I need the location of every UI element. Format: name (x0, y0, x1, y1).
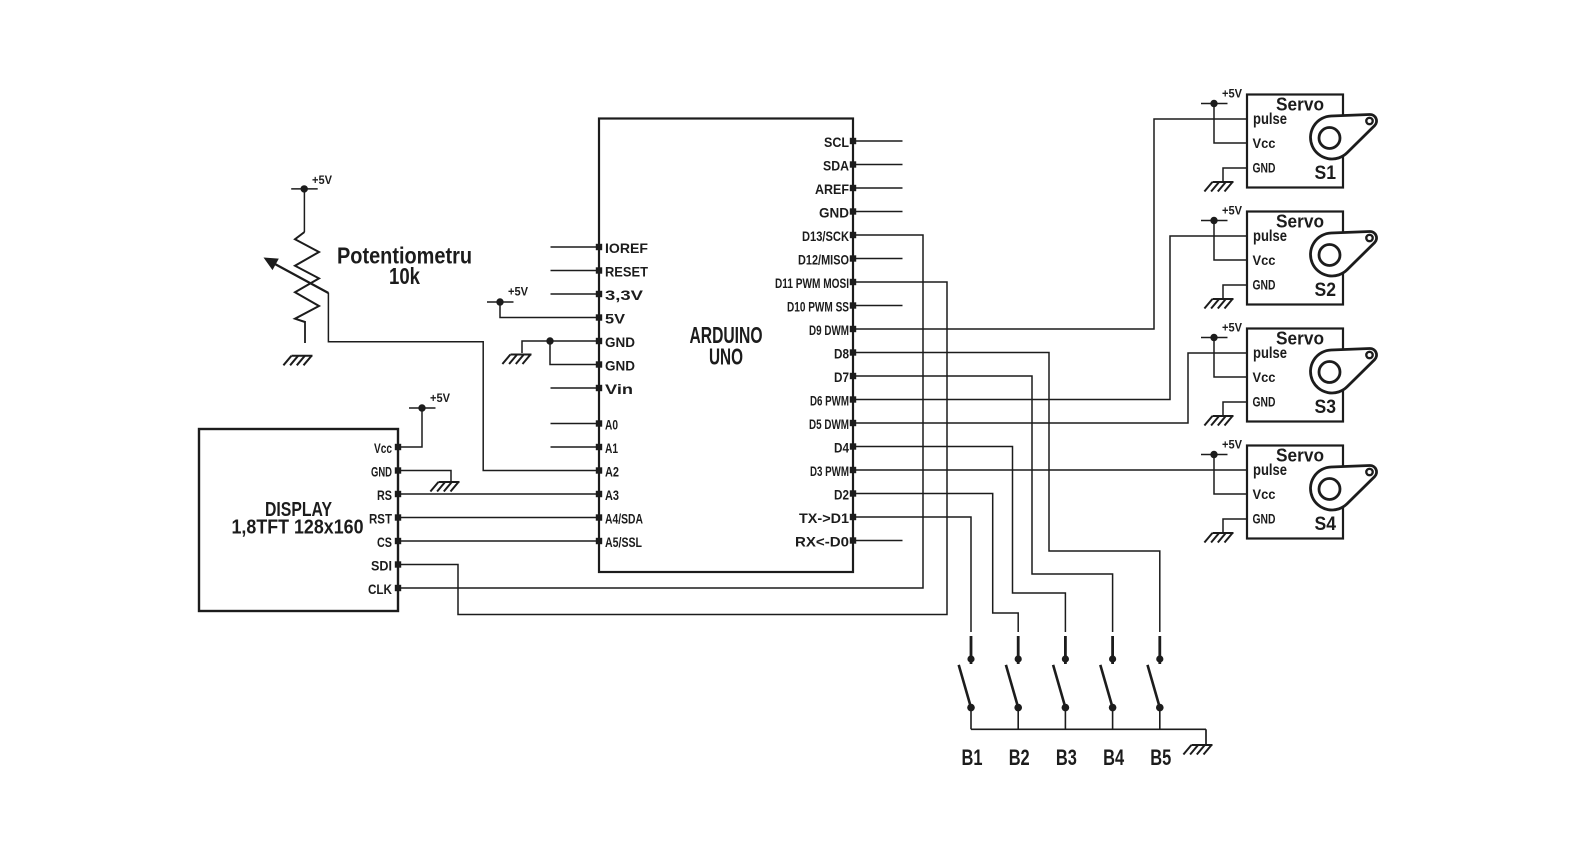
arduino pin IOREF (596, 240, 649, 256)
svg-text:D12/MISO: D12/MISO (798, 252, 849, 268)
display pin CLK (368, 581, 401, 597)
arduino pin A0 (596, 417, 618, 433)
svg-text:+5V: +5V (508, 285, 528, 299)
ground servo S2 (1204, 299, 1233, 309)
svg-text:Vcc: Vcc (1253, 136, 1276, 151)
potentiometer wiper arrow (264, 258, 329, 294)
display pin GND (371, 464, 401, 480)
wire bus to ground (1205, 729, 1207, 744)
label S3 (1315, 397, 1337, 418)
wire S4 GND to ground (1223, 519, 1247, 533)
arduino pin SDA (823, 158, 856, 174)
wire D7 to button B4 (856, 376, 1113, 632)
button B4 switch (1100, 636, 1116, 729)
ground servo S3 (1204, 416, 1233, 426)
stub wire RX<-D0 (856, 540, 903, 542)
arduino pin A4/SDA (596, 511, 643, 527)
+5V supply servo S3 (1201, 321, 1242, 342)
label B5 (1150, 745, 1171, 770)
svg-text:D3 PWM: D3 PWM (810, 463, 849, 479)
wire potentiometer bottom to ground (304, 321, 306, 343)
potentiometer R1 10k body (295, 232, 319, 322)
svg-text:CLK: CLK (368, 581, 392, 597)
svg-text:B3: B3 (1056, 745, 1077, 770)
wire button ground bus (971, 728, 1206, 730)
arduino pin GND (596, 358, 635, 374)
wire D6 to servo S2 pulse (856, 236, 1247, 400)
svg-text:pulse: pulse (1253, 228, 1287, 245)
stub wire SDA (856, 164, 903, 166)
svg-text:1,8TFT 128x160: 1,8TFT 128x160 (232, 517, 364, 539)
svg-text:D6 PWM: D6 PWM (810, 393, 849, 409)
svg-text:Vin: Vin (605, 381, 633, 397)
wire D9 to servo S1 pulse (856, 119, 1247, 329)
svg-text:A0: A0 (605, 417, 618, 433)
arduino pin A5/SSL (596, 534, 643, 550)
arduino pin A2 (596, 464, 619, 480)
arduino pin D2 (834, 487, 856, 503)
arduino pin D7 (834, 369, 856, 385)
svg-text:pulse: pulse (1253, 111, 1287, 128)
wire +5V to 5V pin (500, 302, 596, 318)
ground arduino (502, 355, 531, 365)
ground buttons (1183, 745, 1212, 755)
svg-text:SDI: SDI (371, 558, 392, 574)
stub wire SCL (856, 140, 903, 142)
svg-text:B1: B1 (962, 745, 983, 770)
wire D3 to servo S4 pulse (856, 469, 1247, 471)
stub wire D10 PWM SS (856, 305, 903, 307)
ground display (430, 482, 459, 492)
servo S3 box (1247, 329, 1343, 422)
stub wire D12/MISO (856, 258, 903, 260)
arduino pin D8 (834, 346, 856, 362)
servo S1 box (1247, 95, 1343, 188)
svg-text:SDA: SDA (823, 158, 849, 174)
label B2 (1009, 745, 1030, 770)
arduino pin AREF (815, 181, 856, 197)
arduino pin 5V (596, 311, 626, 327)
arduino pin GND (596, 334, 635, 350)
svg-text:+5V: +5V (1222, 87, 1242, 101)
svg-text:RS: RS (377, 487, 392, 503)
servo S4 box (1247, 446, 1343, 539)
label Potentiometru (337, 243, 472, 269)
servo S4 horn (1311, 465, 1377, 509)
label 10k (389, 263, 420, 289)
stub wire A0 (551, 423, 597, 425)
arduino pin A1 (596, 440, 618, 456)
svg-text:RESET: RESET (605, 264, 648, 280)
wire display SDI to D11 (401, 282, 947, 615)
wire GND pin net (550, 340, 596, 342)
button B3 switch (1053, 636, 1069, 729)
svg-text:+5V: +5V (1222, 321, 1242, 335)
svg-text:D13/SCK: D13/SCK (802, 228, 849, 244)
wire GND to ground symbol (522, 341, 550, 353)
svg-text:A2: A2 (605, 464, 619, 480)
junction GND (546, 337, 553, 344)
arduino U1 box (599, 119, 853, 573)
wire S2 GND to ground (1223, 285, 1247, 299)
+5V supply servo S4 (1201, 438, 1242, 459)
svg-text:S3: S3 (1315, 397, 1337, 418)
arduino pin RESET (596, 264, 649, 280)
svg-text:10k: 10k (389, 263, 420, 289)
+5V supply P1 (291, 173, 332, 193)
arduino pin D5 DWM (809, 416, 856, 432)
wire +5V to S2 Vcc (1214, 221, 1247, 261)
servo S3 labels (1253, 329, 1325, 410)
stub wire RESET (551, 270, 597, 272)
display pin RS (377, 487, 401, 503)
svg-text:A3: A3 (605, 487, 619, 503)
wire display CS to A5/SSL (401, 540, 596, 542)
arduino pin D9 DWM (809, 322, 856, 338)
svg-text:GND: GND (1253, 278, 1276, 293)
wire D4 to button B3 (856, 447, 1065, 633)
svg-text:D8: D8 (834, 346, 849, 362)
servo S3 horn (1311, 348, 1377, 392)
ground servo S4 (1204, 533, 1233, 543)
svg-text:TX->D1: TX->D1 (799, 510, 849, 526)
svg-text:Vcc: Vcc (374, 440, 392, 456)
display label (232, 499, 364, 539)
wire +5V to potentiometer (303, 189, 305, 232)
wire display CLK to D13 (401, 235, 923, 588)
servo S2 labels (1253, 212, 1325, 293)
wire +5V to S3 Vcc (1214, 338, 1247, 378)
ground potentiometer (283, 356, 312, 366)
svg-text:GND: GND (605, 334, 635, 350)
stub wire Vin (551, 387, 597, 389)
svg-text:pulse: pulse (1253, 345, 1287, 362)
wire S1 GND to ground (1223, 168, 1247, 182)
svg-text:CS: CS (377, 534, 392, 550)
svg-text:GND: GND (371, 464, 392, 480)
arduino pin Vin (596, 381, 633, 397)
servo S2 box (1247, 212, 1343, 305)
svg-text:GND: GND (605, 358, 635, 374)
svg-text:D11 PWM MOSI: D11 PWM MOSI (775, 275, 849, 291)
stub wire AREF (856, 187, 903, 189)
+5V supply servo S2 (1201, 204, 1242, 225)
arduino pin 3,3V (596, 287, 644, 303)
svg-text:A4/SDA: A4/SDA (605, 511, 643, 527)
arduino pin D11 PWM MOSI (775, 275, 856, 291)
svg-text:D4: D4 (834, 440, 849, 456)
servo S1 labels (1253, 95, 1325, 176)
svg-text:Vcc: Vcc (1253, 253, 1276, 268)
wire TX->D1 to button B1 (856, 517, 971, 632)
wire display RS to A3 (401, 493, 596, 495)
svg-text:B4: B4 (1103, 745, 1125, 770)
arduino pin RX<-D0 (795, 534, 856, 550)
stub wire GND (856, 211, 903, 213)
wire S3 GND to ground (1223, 402, 1247, 416)
svg-text:Vcc: Vcc (1253, 487, 1276, 502)
svg-text:S4: S4 (1315, 514, 1337, 535)
arduino pin D13/SCK (802, 228, 856, 244)
svg-text:GND: GND (1253, 512, 1276, 527)
label B4 (1103, 745, 1125, 770)
arduino pin SCL (824, 134, 856, 150)
display pin SDI (371, 558, 401, 574)
svg-text:D5 DWM: D5 DWM (809, 416, 849, 432)
svg-text:SCL: SCL (824, 134, 849, 150)
arduino pin A3 (596, 487, 619, 503)
+5V supply servo S1 (1201, 87, 1242, 108)
svg-text:+5V: +5V (1222, 204, 1242, 218)
wire GND to GND2 (550, 341, 596, 365)
svg-text:3,3V: 3,3V (605, 287, 644, 303)
svg-text:GND: GND (1253, 161, 1276, 176)
arduino pin TX->D1 (799, 510, 856, 526)
button B2 switch (1006, 636, 1022, 729)
servo S2 horn (1311, 231, 1377, 275)
svg-text:UNO: UNO (709, 344, 743, 370)
display pin RST (369, 511, 401, 527)
svg-text:B2: B2 (1009, 745, 1030, 770)
label S1 (1315, 163, 1337, 184)
arduino pin D12/MISO (798, 252, 856, 268)
wire D5 to servo S3 pulse (856, 353, 1247, 423)
svg-text:AREF: AREF (815, 181, 849, 197)
wire potentiometer wiper to A2 (328, 293, 596, 471)
svg-text:B5: B5 (1150, 745, 1171, 770)
stub wire A1 (551, 446, 597, 448)
label B1 (962, 745, 983, 770)
button B5 switch (1148, 636, 1164, 729)
+5V supply display (409, 391, 450, 412)
arduino U1 label (690, 322, 763, 370)
svg-text:S2: S2 (1315, 280, 1337, 301)
svg-text:D10 PWM SS: D10 PWM SS (787, 299, 849, 315)
wire display RST to A4/SDA (401, 517, 596, 519)
svg-text:+5V: +5V (430, 391, 450, 405)
wire +5V to S4 Vcc (1214, 455, 1247, 495)
servo S1 horn (1311, 114, 1377, 158)
arduino pin GND (819, 205, 856, 221)
display pin Vcc (374, 440, 401, 456)
wire D8 to button B5 (856, 353, 1160, 633)
wire +5V to S1 Vcc (1214, 104, 1247, 144)
svg-text:D7: D7 (834, 369, 849, 385)
svg-text:GND: GND (819, 205, 849, 221)
ground servo S1 (1204, 182, 1233, 192)
svg-text:Vcc: Vcc (1253, 370, 1276, 385)
svg-text:IOREF: IOREF (605, 240, 648, 256)
display U2 box (199, 429, 398, 611)
wire D2 to button B2 (856, 494, 1018, 633)
svg-text:S1: S1 (1315, 163, 1337, 184)
wire +5V to display Vcc (401, 408, 422, 447)
label S4 (1315, 514, 1337, 535)
arduino pin D4 (834, 440, 856, 456)
button B1 switch (959, 636, 975, 729)
svg-text:+5V: +5V (312, 173, 332, 187)
svg-text:D9 DWM: D9 DWM (809, 322, 849, 338)
svg-text:5V: 5V (605, 311, 626, 327)
svg-text:D2: D2 (834, 487, 849, 503)
servo S4 labels (1253, 446, 1325, 527)
arduino pin D3 PWM (810, 463, 856, 479)
arduino pin D6 PWM (810, 393, 856, 409)
stub wire IOREF (551, 246, 597, 248)
svg-text:A5/SSL: A5/SSL (605, 534, 642, 550)
arduino pin D10 PWM SS (787, 299, 856, 315)
svg-text:GND: GND (1253, 395, 1276, 410)
display pin CS (377, 534, 401, 550)
svg-text:A1: A1 (605, 440, 618, 456)
label B3 (1056, 745, 1077, 770)
wire display GND to ground (401, 471, 451, 482)
stub wire 3,3V (551, 293, 597, 295)
+5V supply arduino (487, 285, 528, 306)
svg-text:RX<-D0: RX<-D0 (795, 534, 849, 550)
svg-text:pulse: pulse (1253, 462, 1287, 479)
svg-text:RST: RST (369, 511, 392, 527)
svg-text:+5V: +5V (1222, 438, 1242, 452)
label S2 (1315, 280, 1337, 301)
